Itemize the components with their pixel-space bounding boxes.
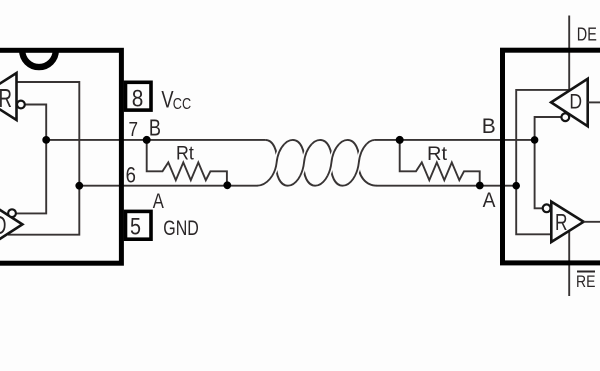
svg-text:A: A <box>483 188 496 212</box>
node B junction dot (right inner) <box>531 136 539 144</box>
left IC internal: R bubble wire to B net <box>16 105 47 214</box>
twisted pair lower strand A <box>257 140 382 186</box>
twisted pair upper strand B <box>260 140 374 186</box>
left IC internal: A net wire to R input and D output <box>8 82 79 235</box>
svg-text:D: D <box>0 210 7 240</box>
inverting bubble on D output (left IC) <box>8 209 16 217</box>
receiver R triangle (left IC) <box>0 73 17 120</box>
right IC internal: B net vertical to D bubble and R bubble <box>535 117 562 208</box>
svg-text:DE: DE <box>577 24 597 45</box>
node B junction dot (left inner) <box>42 136 50 144</box>
wire D input to DI <box>588 101 600 103</box>
node B junction dot (left outer) <box>143 136 151 144</box>
node A junction dot (right outer) <box>476 182 484 190</box>
inverting bubble on R input (left IC) <box>17 101 25 109</box>
svg-text:8: 8 <box>132 86 144 113</box>
resistor Rt left <box>147 140 227 186</box>
node B junction dot (right outer) <box>396 136 404 144</box>
svg-text:Rt: Rt <box>176 143 194 165</box>
inverting bubble on D output (right IC) <box>561 113 569 121</box>
wire RE vertical <box>568 230 570 296</box>
svg-text:B: B <box>149 114 161 140</box>
left IC package outline <box>0 50 121 263</box>
receiver R triangle (right IC) <box>551 202 583 242</box>
svg-text:V: V <box>161 87 173 114</box>
svg-text:B: B <box>482 114 496 138</box>
svg-text:RE: RE <box>576 272 595 291</box>
pin 5 box <box>126 211 152 239</box>
right IC package outline <box>503 50 600 263</box>
driver D triangle (left IC) <box>0 201 22 248</box>
svg-text:R: R <box>555 209 568 235</box>
svg-text:D: D <box>569 91 582 114</box>
twisted pair loops <box>257 140 382 186</box>
twisted pair over-crossing 4 <box>355 144 367 176</box>
svg-text:6: 6 <box>126 163 136 188</box>
driver D triangle (right IC) <box>551 79 588 126</box>
node A junction dot (left outer) <box>223 181 231 189</box>
svg-text:5: 5 <box>130 214 141 241</box>
right IC internal: A net vertical to D enable edge and R input <box>516 90 568 234</box>
svg-text:CC: CC <box>173 96 191 113</box>
svg-text:GND: GND <box>163 217 199 240</box>
node A junction dot (right inner) <box>512 182 520 190</box>
svg-text:R: R <box>0 83 12 113</box>
svg-text:A: A <box>153 189 165 213</box>
twisted pair over-crossing 2 <box>300 144 312 176</box>
wire R output to RO <box>584 221 600 223</box>
pin 8 box <box>126 82 152 110</box>
twisted pair over-crossing 3 <box>328 144 340 176</box>
node A junction dot (left inner) <box>75 182 83 190</box>
wire DE vertical <box>568 16 570 90</box>
svg-text:Rt: Rt <box>427 143 448 165</box>
twisted pair over-crossing 1 <box>272 144 284 176</box>
inverting bubble on R input (right IC) <box>543 204 551 212</box>
svg-text:7: 7 <box>129 119 139 141</box>
left IC notch <box>22 50 56 67</box>
resistor Rt right <box>400 140 480 186</box>
wire B line flat segments (pin 7 net) <box>46 139 534 141</box>
wire A line flat segments (pin 6 net) <box>79 185 516 187</box>
